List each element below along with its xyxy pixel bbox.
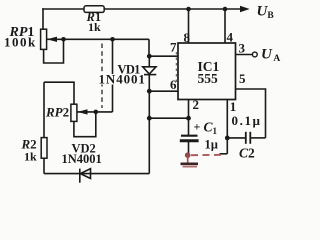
arrow RP2 wiper head <box>78 109 88 114</box>
svg-text:1N4001: 1N4001 <box>99 72 146 87</box>
svg-text:UB: UB <box>257 4 275 22</box>
wire link to pin2 <box>149 117 188 119</box>
potentiometer RP1 <box>41 29 47 49</box>
resistor R1 <box>84 6 104 13</box>
node junction dot rail/pin4 <box>223 7 228 12</box>
wire pin 5 <box>236 89 266 138</box>
svg-text:1µ: 1µ <box>205 138 218 152</box>
svg-text:1k: 1k <box>24 150 37 164</box>
node junction dot rail/pin8 <box>186 7 191 12</box>
ground <box>185 152 191 158</box>
label VD1 <box>97 63 146 87</box>
wire VD1 node down to trigger node <box>148 91 150 118</box>
wire top supply rail <box>43 8 241 10</box>
svg-text:555: 555 <box>198 71 219 86</box>
arrow supply UB <box>240 6 250 13</box>
dashed gang-link line <box>101 44 103 109</box>
wire bottom rail <box>44 173 149 175</box>
wire down to bottom rail <box>148 118 150 173</box>
svg-text:C2: C2 <box>239 146 255 161</box>
wire RP2 bottom loop <box>74 112 96 137</box>
wire red dashed ground link <box>191 154 225 156</box>
op IC1 555 box <box>178 43 236 100</box>
wire pin1 hook <box>220 153 228 155</box>
wire pin 7 <box>149 55 178 57</box>
svg-text:1N4001: 1N4001 <box>62 152 102 166</box>
node dot pin7/VD1 <box>147 54 152 59</box>
arrow RP1 wiper head <box>47 37 57 42</box>
node dot wiper branch <box>110 37 115 42</box>
svg-text:0.1µ: 0.1µ <box>232 113 262 128</box>
svg-text:RP2: RP2 <box>45 105 69 120</box>
node dot trigger link left <box>147 116 152 121</box>
svg-text:1: 1 <box>230 99 237 114</box>
svg-text:6: 6 <box>170 77 177 92</box>
svg-text:C1: C1 <box>204 120 218 137</box>
wire pin 3 output <box>236 54 253 56</box>
wire pin 1 lead <box>226 100 228 154</box>
svg-text:4: 4 <box>227 30 234 45</box>
node dot RP2 loop/wiper <box>94 110 99 115</box>
svg-text:100k: 100k <box>4 35 37 50</box>
wire RP1 wiper line <box>47 38 149 40</box>
wire vertical from rail to RP1 top <box>42 9 44 29</box>
svg-text:8: 8 <box>184 30 191 45</box>
wire pin4 drop from rail <box>224 9 226 43</box>
wire branch down to RP2 wiper <box>112 39 114 112</box>
dashed artifact left of IC <box>175 52 177 82</box>
wire pin 6 <box>149 90 178 92</box>
wire RP1 bottom loop to wiper <box>44 39 64 63</box>
svg-text:3: 3 <box>239 41 246 56</box>
svg-text:5: 5 <box>239 71 246 86</box>
node dot pin6/VD1 cathode <box>147 89 152 94</box>
capacitor C1 <box>188 118 190 135</box>
node dot pin2/C1 <box>186 116 191 121</box>
svg-text:1k: 1k <box>88 20 101 34</box>
wire pin8 drop from rail <box>188 9 190 43</box>
node dot pin1/C2 <box>225 136 230 141</box>
diode VD1 <box>143 56 157 91</box>
svg-text:+: + <box>194 120 201 134</box>
node dot RP1 loop/wiper <box>61 37 66 42</box>
wire R2 top to RP2 top <box>44 82 74 104</box>
svg-text:UA: UA <box>261 47 280 65</box>
wire corner down to pin7 node <box>148 39 150 56</box>
diode VD2 <box>80 169 91 183</box>
terminal circle pin3 <box>252 52 257 57</box>
svg-text:2: 2 <box>193 97 200 112</box>
capacitor C2 <box>227 137 246 139</box>
wire RP2 wiper <box>78 111 113 113</box>
resistor R2 <box>43 82 45 137</box>
potentiometer RP2 <box>71 104 77 121</box>
wire pin 2 lead <box>188 100 190 119</box>
